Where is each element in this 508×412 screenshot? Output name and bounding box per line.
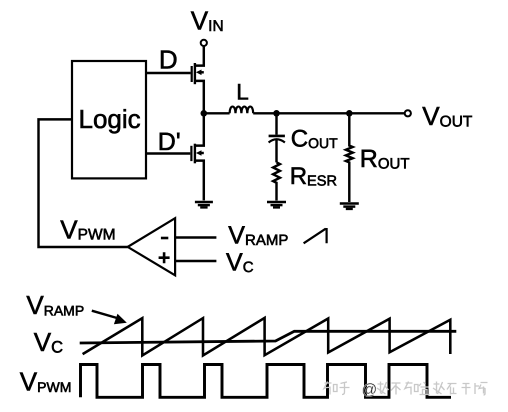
wire gate D — [146, 72, 191, 74]
svg-text:RESR: RESR — [290, 163, 337, 190]
wo2 — [433, 382, 445, 395]
node B (COUT junction) — [273, 110, 280, 117]
pin - — [161, 237, 168, 240]
svg-text:@: @ — [362, 382, 378, 399]
resistor RESR — [273, 162, 280, 200]
zhi2 — [405, 382, 418, 395]
zai — [447, 384, 457, 395]
resistor ROUT — [346, 113, 353, 202]
ground (RESR) — [267, 202, 286, 207]
svg-text:ROUT: ROUT — [360, 145, 410, 173]
transistor Q1 (high-side MOSFET) — [192, 63, 204, 113]
waveform VRAMP sawtooth — [83, 318, 451, 356]
svg-text:COUT: COUT — [291, 125, 338, 152]
waveform VPWM square — [81, 365, 452, 398]
gan — [462, 384, 471, 395]
ramp icon — [304, 228, 327, 243]
svg-text:VIN: VIN — [191, 6, 224, 36]
capacitor COUT — [269, 113, 285, 162]
wire VIN to Q1 drain — [195, 46, 204, 65]
wire node to Q2 drain — [195, 113, 204, 145]
wire VPWM feedback — [39, 119, 128, 247]
svg-text:VPWM: VPWM — [20, 367, 72, 397]
dao — [419, 382, 430, 395]
svg-text:D': D' — [158, 128, 181, 156]
svg-text:L: L — [236, 79, 249, 104]
zhi — [324, 382, 337, 395]
wire gate D' — [146, 152, 190, 154]
inductor L — [230, 107, 254, 114]
wire inverting input — [175, 236, 216, 238]
op-amp U2 (PWM comparator) — [128, 218, 175, 275]
waveform VC line — [80, 331, 457, 343]
ground (ROUT) — [340, 204, 359, 209]
ma — [475, 383, 488, 396]
node C (ROUT junction) — [346, 110, 353, 117]
logic block U1 — [72, 61, 146, 178]
node VOUT terminal — [405, 110, 411, 116]
wire switch node to inductor — [204, 112, 230, 114]
wire noninverting input — [175, 260, 216, 262]
bu — [391, 383, 401, 395]
watermark — [324, 382, 488, 399]
node VIN terminal — [201, 40, 207, 46]
node A (switch node) — [201, 110, 208, 117]
pin + — [159, 252, 170, 263]
svg-text:VC: VC — [34, 327, 63, 357]
svg-text:VPWM: VPWM — [60, 214, 115, 244]
svg-text:VC: VC — [226, 249, 254, 277]
transistor Q2 (low-side MOSFET) — [191, 144, 203, 201]
wo1 — [377, 382, 389, 395]
svg-text:D: D — [159, 44, 178, 74]
svg-text:VRAMP: VRAMP — [26, 290, 84, 320]
ground (Q2 source) — [195, 202, 213, 207]
hu — [340, 382, 350, 395]
svg-text:VRAMP: VRAMP — [228, 222, 288, 250]
wire inductor to VOUT — [253, 112, 405, 114]
svg-text:VOUT: VOUT — [422, 101, 473, 131]
arrow to ramp — [92, 311, 117, 318]
svg-text:Logic: Logic — [79, 104, 141, 134]
